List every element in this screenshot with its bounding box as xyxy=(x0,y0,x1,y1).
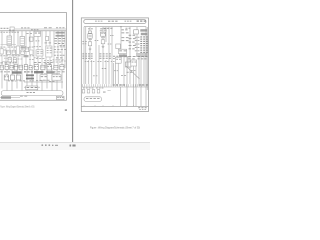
harness label xyxy=(27,91,35,94)
bus box label xyxy=(125,20,132,23)
connector C14 text xyxy=(25,65,28,68)
module text xyxy=(47,51,52,54)
main harness bus outline xyxy=(84,20,146,24)
wire label xyxy=(128,55,135,58)
wire label xyxy=(43,79,50,82)
wire xyxy=(143,57,145,84)
relay label xyxy=(88,27,93,30)
wire xyxy=(123,54,125,84)
wire label xyxy=(120,55,127,58)
wire label xyxy=(85,60,89,63)
right page diagram frame xyxy=(81,18,148,112)
pin label xyxy=(101,36,105,39)
label column xyxy=(60,44,66,47)
wire xyxy=(129,27,131,84)
module text xyxy=(47,47,52,50)
connector C30 xyxy=(116,44,121,49)
connector C34 xyxy=(134,30,139,34)
bus name label xyxy=(104,27,113,30)
sensor B4 xyxy=(41,65,45,70)
wire label xyxy=(102,67,106,70)
wire label xyxy=(30,79,34,82)
connector C7 xyxy=(25,47,29,51)
wire xyxy=(1,31,3,68)
terminal block xyxy=(97,90,100,93)
wire color label xyxy=(140,52,148,53)
wire label xyxy=(14,46,20,49)
wire label xyxy=(0,54,8,57)
wire xyxy=(135,66,137,106)
label column text xyxy=(99,52,110,55)
title text xyxy=(57,96,63,99)
terminal block xyxy=(92,90,95,93)
assembly name label xyxy=(12,71,22,73)
connector C16 text xyxy=(54,66,58,69)
connector text xyxy=(27,86,38,89)
wire xyxy=(102,60,104,84)
module text xyxy=(116,58,121,61)
wire xyxy=(95,60,97,84)
wire label xyxy=(113,57,118,60)
label column xyxy=(55,40,66,43)
connector C13 text xyxy=(10,66,13,69)
terminal label xyxy=(108,89,111,92)
wire color label xyxy=(141,33,148,35)
page edge separator xyxy=(72,0,74,142)
pin label xyxy=(36,40,40,43)
splice id xyxy=(24,55,29,57)
wire label xyxy=(126,27,131,30)
wire label xyxy=(44,59,52,62)
wire xyxy=(98,45,100,60)
label xyxy=(122,31,129,34)
wire label xyxy=(30,54,34,57)
wire xyxy=(9,31,11,68)
wire label xyxy=(82,42,86,45)
sensor B1 text xyxy=(15,65,18,68)
bus box label xyxy=(108,21,118,22)
wire xyxy=(145,27,147,106)
relay label xyxy=(100,27,106,30)
net name label xyxy=(1,28,9,29)
wire color label xyxy=(140,36,148,37)
label column xyxy=(55,37,66,40)
wire xyxy=(113,63,115,84)
wire xyxy=(61,31,63,68)
wire label xyxy=(113,55,119,58)
label column xyxy=(53,61,61,64)
label xyxy=(122,28,128,31)
connector pin strip rail xyxy=(82,86,148,88)
connector C31 xyxy=(118,49,126,53)
module M10 xyxy=(115,57,121,63)
sensor B2 text xyxy=(19,66,22,69)
module label xyxy=(53,75,61,78)
sensor B1 xyxy=(14,65,17,70)
relay K11 xyxy=(101,32,106,36)
wire label xyxy=(111,60,115,63)
wire label xyxy=(121,74,126,77)
wire xyxy=(49,31,51,68)
wire label xyxy=(82,40,86,43)
actuator label xyxy=(41,75,47,78)
connector C4 xyxy=(12,50,15,54)
fuse box F1 xyxy=(34,31,41,36)
module text xyxy=(47,49,52,52)
wire xyxy=(115,63,117,84)
label xyxy=(129,41,135,44)
connector C41 xyxy=(88,42,91,46)
connector C16 xyxy=(54,65,58,69)
wire xyxy=(89,27,91,60)
bus wire xyxy=(15,28,66,30)
wire xyxy=(13,31,15,68)
feed bus wire xyxy=(84,26,146,28)
wire xyxy=(6,68,8,92)
wire xyxy=(25,31,27,68)
terminal block xyxy=(82,90,85,93)
actuator Y2 xyxy=(10,75,14,80)
bus label xyxy=(56,26,64,29)
relay K10 xyxy=(88,34,92,38)
connector C6 xyxy=(21,50,25,55)
wire color label xyxy=(140,43,148,44)
label column dark xyxy=(54,54,64,57)
label column text xyxy=(82,55,92,58)
connector C7 text xyxy=(26,48,29,51)
toolbar page nav icons xyxy=(42,144,59,146)
connector C5 xyxy=(16,46,19,55)
connector C40 xyxy=(88,31,91,33)
connector C42 xyxy=(101,40,105,44)
wire label xyxy=(29,46,33,49)
wire label xyxy=(45,62,52,65)
wire xyxy=(5,48,7,69)
sensor B2 xyxy=(19,65,23,70)
connector C10 xyxy=(46,37,49,41)
fuse label xyxy=(35,32,41,35)
connector C9 xyxy=(13,58,16,62)
harness routing outline xyxy=(1,91,63,96)
wire xyxy=(56,68,58,92)
pin number label xyxy=(135,39,140,42)
connector C18 xyxy=(30,50,33,54)
wire xyxy=(120,27,122,49)
wire label xyxy=(36,79,42,82)
bus ticks xyxy=(84,105,134,106)
wire xyxy=(31,68,33,89)
wire label xyxy=(114,69,118,72)
wire xyxy=(133,66,135,106)
connector C12 text xyxy=(5,65,8,68)
ground label G1 xyxy=(1,96,11,99)
module M3 xyxy=(52,75,61,80)
connector C9 text xyxy=(14,58,17,61)
ground G11 xyxy=(102,45,105,47)
connector C8 xyxy=(8,57,11,62)
connector C17 xyxy=(60,65,64,70)
pin number label xyxy=(135,36,140,39)
wire label xyxy=(58,70,65,73)
wire xyxy=(26,68,28,92)
relay K2 xyxy=(20,37,25,46)
label column xyxy=(54,48,67,51)
splice dash xyxy=(103,91,106,94)
ECM label block xyxy=(56,32,65,37)
svg-text:Figure : Wiring Diagram/Schema: Figure : Wiring Diagram/Schematic (Sheet… xyxy=(90,125,140,129)
connector label box C20 xyxy=(26,86,38,90)
terminal number row xyxy=(1,31,19,34)
wire color label xyxy=(140,50,148,51)
wire label xyxy=(98,60,102,63)
terminal block xyxy=(87,90,90,93)
left page diagram frame xyxy=(0,13,66,101)
wire label xyxy=(91,60,95,63)
connector C3 text xyxy=(7,51,10,54)
label column text xyxy=(82,57,92,60)
wire xyxy=(45,31,47,68)
connector C15 text xyxy=(29,66,32,69)
wire xyxy=(111,27,113,60)
wire label xyxy=(128,57,134,60)
wire label xyxy=(93,74,97,77)
bus label xyxy=(21,26,29,29)
connector C14 xyxy=(24,65,27,70)
sensor B5 text xyxy=(47,65,51,68)
wire label xyxy=(24,71,33,72)
lower interconnect wire xyxy=(24,86,40,88)
connector C17 text xyxy=(60,65,64,68)
wire xyxy=(37,31,39,68)
connector pin strip ticks xyxy=(83,84,147,86)
wire label xyxy=(8,46,14,49)
wire label xyxy=(0,46,5,49)
wire label xyxy=(95,39,99,42)
wire xyxy=(98,60,100,84)
wire label xyxy=(49,80,55,83)
actuator text xyxy=(5,75,9,78)
viewer toolbar background xyxy=(0,143,150,150)
wire xyxy=(33,31,35,68)
wire label xyxy=(1,49,7,52)
junction link wire xyxy=(1,44,17,46)
wire color label xyxy=(140,39,148,40)
lower bus xyxy=(82,105,149,107)
wire color label xyxy=(140,45,148,46)
harness label xyxy=(86,97,100,100)
wire label xyxy=(61,60,66,63)
interconnect bus xyxy=(24,81,63,83)
relay text xyxy=(101,32,105,35)
connector C35 xyxy=(125,62,131,67)
wire xyxy=(120,87,122,106)
connector C3 xyxy=(7,50,11,54)
wire label xyxy=(34,61,41,64)
wire label xyxy=(45,42,52,45)
connector C15 xyxy=(29,66,32,70)
connector C8 text xyxy=(8,58,11,61)
junction node xyxy=(120,26,121,27)
wire xyxy=(1,68,3,89)
wire label xyxy=(8,79,13,82)
wire xyxy=(51,68,53,92)
wire xyxy=(95,27,97,60)
connector C11 xyxy=(0,65,3,70)
wire along frame xyxy=(83,27,85,84)
bus id label xyxy=(137,21,146,22)
label xyxy=(122,39,129,42)
pin strip label xyxy=(96,87,103,90)
wire xyxy=(17,31,19,68)
label column text xyxy=(99,57,110,60)
label row xyxy=(138,56,148,57)
label xyxy=(129,37,136,40)
pin number label xyxy=(135,49,140,52)
label column xyxy=(56,56,63,59)
wire xyxy=(46,68,48,89)
label xyxy=(129,47,135,50)
wire xyxy=(136,27,138,53)
junction link wire xyxy=(44,72,60,74)
junction label xyxy=(37,50,43,53)
sheet title text xyxy=(138,106,146,109)
wire color label xyxy=(140,41,148,42)
wire label xyxy=(108,43,112,46)
splice id label xyxy=(21,46,27,48)
wire label xyxy=(12,80,16,83)
sensor B3 xyxy=(34,65,38,70)
diagonal routed wire xyxy=(126,66,140,79)
relay K1 xyxy=(7,36,12,46)
ground G10 xyxy=(89,48,92,50)
wire xyxy=(41,68,43,92)
pin number label xyxy=(135,43,140,46)
junction link wire xyxy=(2,61,12,63)
label row xyxy=(138,57,147,60)
wire label xyxy=(36,57,44,60)
assembly name label xyxy=(34,71,44,73)
module text xyxy=(132,61,137,64)
left page number xyxy=(65,109,67,111)
wire xyxy=(146,27,148,90)
label column xyxy=(54,45,65,48)
wire label xyxy=(0,70,10,73)
wire label xyxy=(34,56,39,59)
wire xyxy=(111,60,113,84)
connector box C101 xyxy=(10,27,14,31)
wire label xyxy=(105,60,109,63)
connector C12 xyxy=(5,65,8,70)
wire label xyxy=(4,57,8,60)
wire xyxy=(29,31,31,68)
pin number label xyxy=(135,46,140,49)
connector C4 text xyxy=(12,51,15,54)
label xyxy=(129,44,136,47)
wire xyxy=(126,56,128,106)
wire xyxy=(21,68,23,92)
wire label xyxy=(110,34,114,37)
wire xyxy=(91,60,93,84)
pin label xyxy=(89,38,92,41)
harness routing outline lower xyxy=(84,97,102,102)
junction block J1 xyxy=(36,50,43,56)
viewer toolbar divider xyxy=(0,141,150,143)
wire xyxy=(64,31,66,68)
label column xyxy=(55,42,65,45)
label column text xyxy=(82,52,92,55)
wire label xyxy=(34,45,41,48)
wire xyxy=(108,27,110,60)
sensor B3 text xyxy=(35,65,39,68)
label xyxy=(122,36,129,39)
wire xyxy=(16,68,18,89)
tone overlay (scan fade) xyxy=(0,44,66,64)
assembly name label xyxy=(47,71,55,73)
wire xyxy=(85,27,87,60)
actuator Y1 xyxy=(4,75,8,80)
pin number xyxy=(5,62,9,65)
wire label xyxy=(17,58,22,61)
wire color label xyxy=(140,47,148,48)
wire xyxy=(108,60,110,84)
connector C13 xyxy=(10,65,13,69)
label column xyxy=(53,58,64,61)
actuator Y4 xyxy=(40,75,47,80)
wire xyxy=(127,56,129,68)
wire xyxy=(11,68,13,92)
junction label xyxy=(37,52,43,55)
wire xyxy=(21,31,23,68)
pin strip label xyxy=(83,87,93,90)
control module U2 xyxy=(26,74,34,79)
wire xyxy=(53,31,55,68)
actuator Y3 xyxy=(16,75,20,80)
wire label xyxy=(0,61,7,64)
label column xyxy=(54,51,61,54)
bus label xyxy=(31,28,38,31)
wire xyxy=(102,27,104,60)
wire xyxy=(36,68,38,92)
sheet title text xyxy=(139,108,146,111)
svg-text:Figure : Wiring Diagram/Schema: Figure : Wiring Diagram/Schematic (Sheet… xyxy=(0,104,34,108)
wire xyxy=(41,31,43,68)
ground bus xyxy=(0,96,20,98)
wire label xyxy=(12,54,21,57)
sensor B5 xyxy=(47,65,52,70)
label column text xyxy=(99,55,110,58)
wire label xyxy=(46,70,56,73)
wire label xyxy=(10,61,17,64)
sensor B4 text xyxy=(41,66,45,69)
label block xyxy=(136,53,148,56)
note text xyxy=(20,95,27,98)
wire label xyxy=(131,69,135,72)
wire xyxy=(138,57,140,84)
pin strip label dark xyxy=(139,84,149,85)
wire xyxy=(105,27,107,42)
wire xyxy=(88,60,90,84)
breaker CB1 xyxy=(29,37,33,41)
wire label xyxy=(27,32,33,35)
connector id xyxy=(119,54,127,57)
label xyxy=(129,34,136,37)
wire xyxy=(105,60,107,84)
toolbar zoom icons xyxy=(70,145,76,147)
wire label xyxy=(127,71,133,74)
connector C2 xyxy=(0,49,3,54)
wire xyxy=(140,57,142,107)
connector text xyxy=(119,49,126,52)
